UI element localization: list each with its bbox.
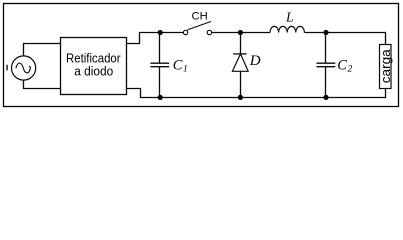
svg-text:1: 1 <box>183 64 188 74</box>
wire rectifier bottom out to bottom rail <box>127 89 161 98</box>
svg-text:2: 2 <box>348 64 353 74</box>
switch CH <box>183 22 211 35</box>
wire rectifier top out to top rail <box>127 33 184 44</box>
svg-text:C: C <box>173 57 183 73</box>
load block (carga) <box>378 45 393 89</box>
wire source top to rectifier <box>24 44 62 56</box>
label C1 <box>173 57 188 74</box>
node D top <box>238 30 243 35</box>
svg-text:carga: carga <box>378 49 393 83</box>
node C2 top <box>323 30 328 35</box>
svg-text:D: D <box>249 53 261 69</box>
bottom rail wire <box>160 89 386 98</box>
wire inductor to C2 node and to load top <box>304 33 385 46</box>
wire source bottom to rectifier <box>24 80 62 88</box>
svg-text:Retificador: Retificador <box>66 52 121 66</box>
capacitor C1 <box>150 33 169 98</box>
node C1 bottom <box>158 95 163 100</box>
node D bottom <box>238 95 243 100</box>
svg-text:L: L <box>285 9 294 24</box>
wire switch to diode node <box>212 32 270 34</box>
inductor L <box>270 26 304 32</box>
node C1 top <box>158 30 163 35</box>
label C2 <box>337 57 352 74</box>
node C2 bottom <box>323 95 328 100</box>
ac source V <box>7 56 36 80</box>
svg-text:C: C <box>337 57 347 73</box>
svg-text:CH: CH <box>192 10 208 22</box>
svg-text:a diodo: a diodo <box>74 65 113 79</box>
diode D <box>232 33 248 98</box>
rectifier block U1 <box>61 38 127 95</box>
capacitor C2 <box>317 33 336 98</box>
